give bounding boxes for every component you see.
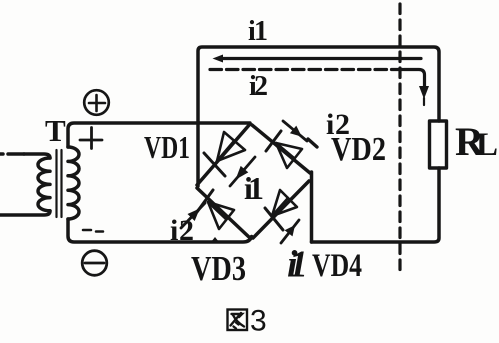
arrowhead i1 near VD4 xyxy=(285,225,295,236)
svg-text:L: L xyxy=(476,127,498,163)
arrowhead i2 pointing down xyxy=(419,86,429,99)
svg-text:i1: i1 xyxy=(248,16,268,47)
svg-text:3: 3 xyxy=(250,305,267,338)
svg-text:VD3: VD3 xyxy=(191,249,246,288)
svg-text:i1: i1 xyxy=(287,244,308,286)
wire current arrow line i2 near VD3 xyxy=(181,203,205,228)
current i1 inner solid line top xyxy=(222,57,421,60)
arrowhead i2 near VD2 xyxy=(290,126,302,137)
current i2 inner dashed line top xyxy=(210,68,404,71)
wire top rail with left drop and right drop to RL xyxy=(198,47,439,186)
diode VD2 edge xyxy=(252,125,310,173)
diode VD4 triangle and bar xyxy=(265,190,297,230)
transformer T secondary winding xyxy=(68,147,79,219)
transformer T primary winding and leads xyxy=(0,152,24,156)
svg-text:i2: i2 xyxy=(170,214,194,247)
node plus polarity xyxy=(80,128,102,149)
arrowhead i2 near VD3 xyxy=(188,209,200,222)
arrowhead center i1 xyxy=(236,166,249,180)
node positive terminal symbol xyxy=(84,90,109,115)
transformer core xyxy=(57,150,62,217)
svg-text:VD1: VD1 xyxy=(144,129,190,165)
wire current arrow line i1 near VD4 xyxy=(281,220,299,243)
wire VD2 label dash xyxy=(308,139,317,147)
wire RL bottom to bridge right corner xyxy=(312,168,440,242)
wire secondary bottom lead xyxy=(68,219,252,242)
diode VD3 edge xyxy=(197,188,250,238)
wire transformer secondary loop: top lead, coil, bottom lead xyxy=(68,123,250,147)
svg-text:VD4: VD4 xyxy=(312,248,362,284)
diode VD4 edge xyxy=(253,181,309,238)
wire current arrow line center i1 xyxy=(230,157,255,186)
node minus polarity marks xyxy=(83,230,103,232)
diode VD1 edge xyxy=(197,124,250,185)
caption figure character xyxy=(228,310,248,331)
diode VD2 triangle and bar xyxy=(266,131,302,168)
wire current arrow line i2 near VD2 xyxy=(283,121,307,141)
resistor RL xyxy=(430,121,447,168)
svg-text:T: T xyxy=(45,113,66,148)
wire i2 corner down with arrow xyxy=(404,70,425,88)
svg-text:VD2: VD2 xyxy=(331,131,386,168)
diode VD1 triangle and bar xyxy=(204,132,245,176)
junction nub on bottom wire xyxy=(211,237,219,242)
dashed boundary vertical line xyxy=(398,4,401,276)
node negative terminal symbol xyxy=(82,251,107,276)
svg-text:i2: i2 xyxy=(249,71,268,102)
svg-text:i1: i1 xyxy=(244,170,264,206)
diode VD3 triangle and bar xyxy=(197,190,234,229)
wire bridge right vertical xyxy=(310,172,314,242)
arrowhead i1 top pointing left xyxy=(213,55,224,63)
